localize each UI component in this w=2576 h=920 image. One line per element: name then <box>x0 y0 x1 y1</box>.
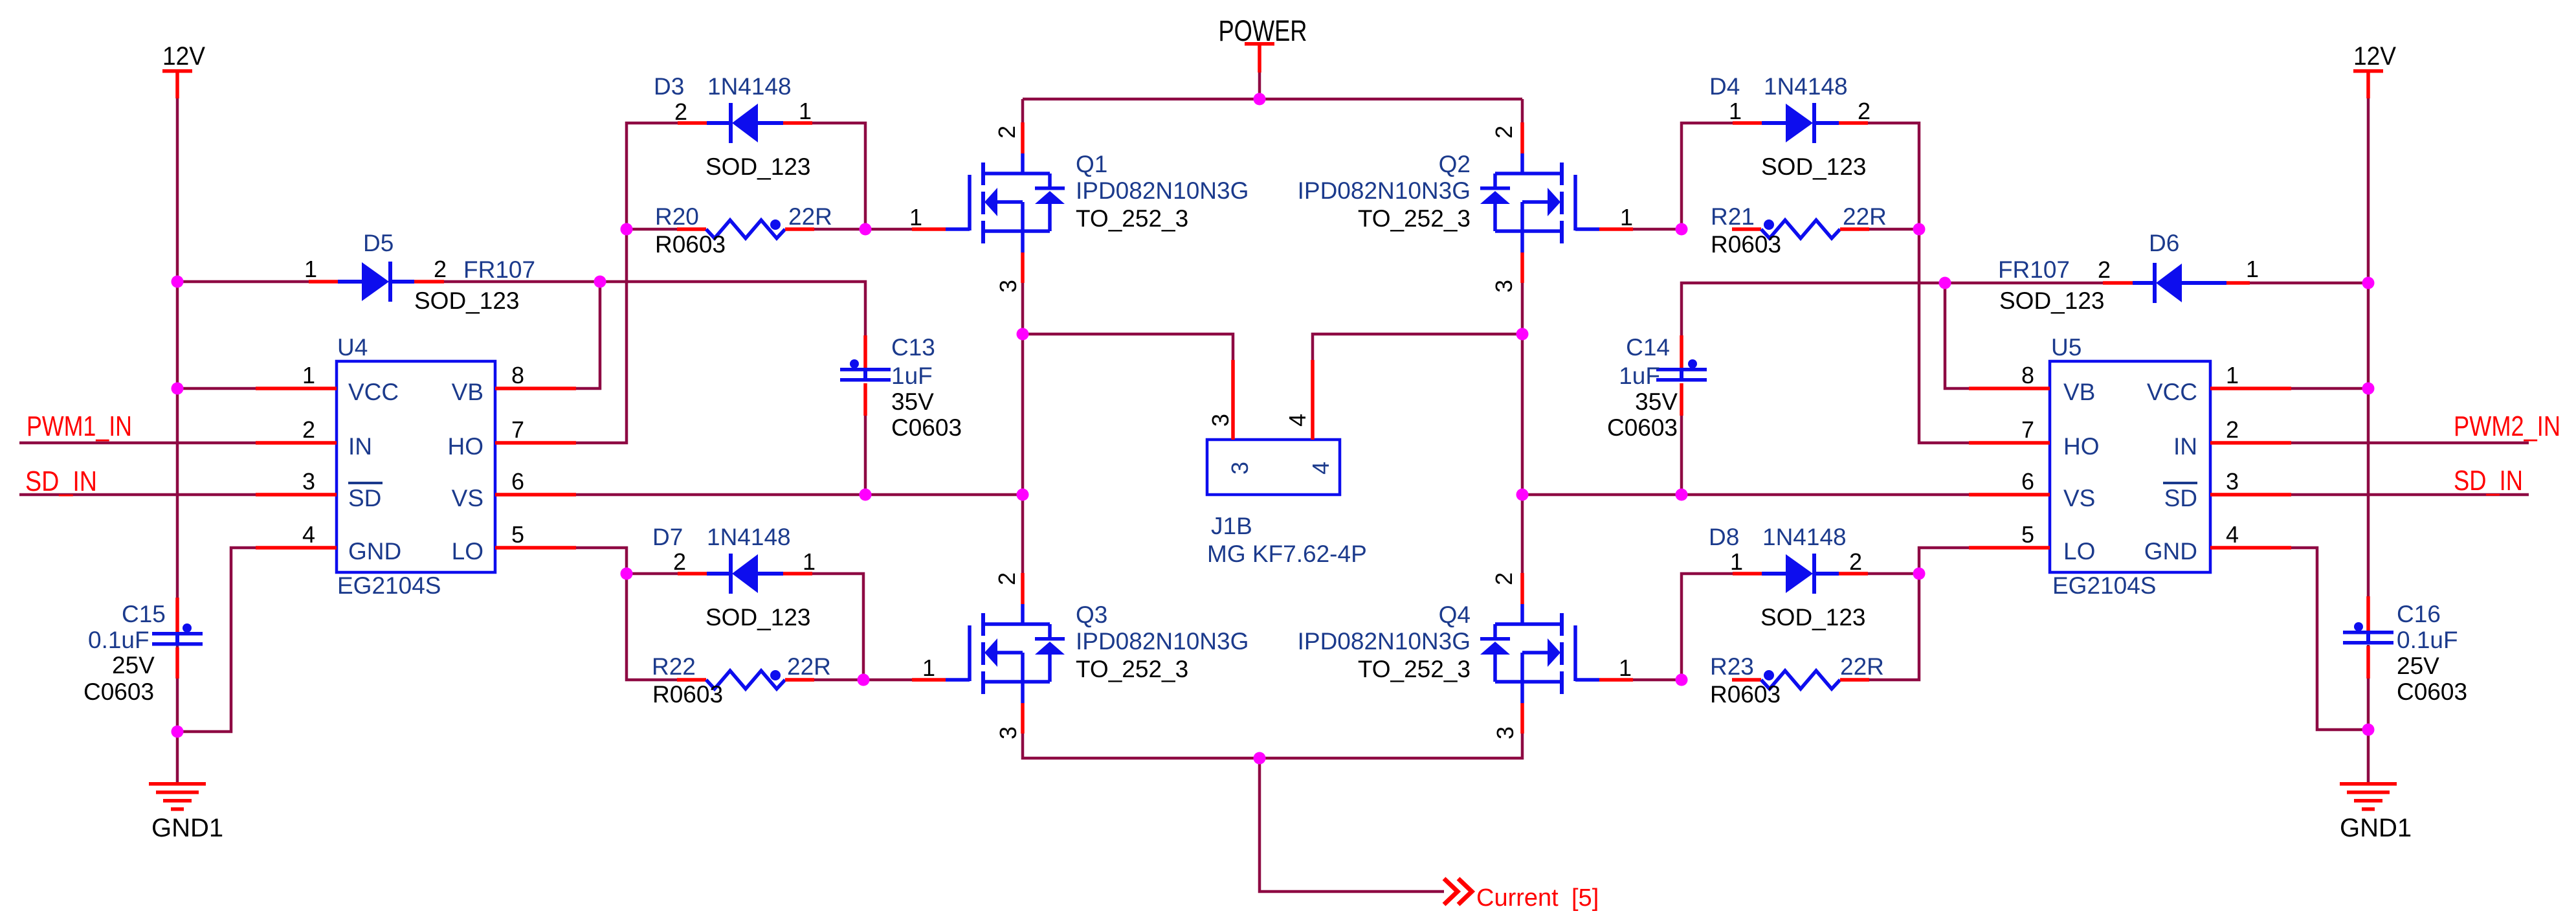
U4 pin stubs <box>256 388 576 548</box>
D6 labels <box>1998 230 2259 314</box>
R23 labels <box>1710 653 1884 708</box>
wire SD_IN net right <box>2291 493 2529 497</box>
svg-text:Q4: Q4 <box>1439 601 1471 628</box>
wire Q2 source / Q4 drain rail <box>1521 283 1524 573</box>
svg-text:2: 2 <box>434 256 447 282</box>
wire U4 VCC pin1 to 12V rail <box>177 387 256 390</box>
svg-text:1: 1 <box>1729 98 1742 124</box>
junction (2352,516) <box>1516 328 1529 341</box>
svg-text:VB: VB <box>2063 379 2095 405</box>
svg-text:Q2: Q2 <box>1439 151 1471 177</box>
svg-text:TO_252_3: TO_252_3 <box>1076 205 1188 232</box>
svg-text:5: 5 <box>511 521 524 548</box>
svg-text:1: 1 <box>1619 655 1632 681</box>
connector J1B body <box>1207 440 1340 495</box>
svg-text:TO_252_3: TO_252_3 <box>1358 205 1471 232</box>
C14 labels <box>1607 334 1678 441</box>
svg-text:R23: R23 <box>1710 653 1754 680</box>
junction (2965,886) <box>1913 568 1926 580</box>
svg-text:R0603: R0603 <box>655 231 726 258</box>
diode D3 1N4148 <box>678 103 812 143</box>
svg-text:SOD_123: SOD_123 <box>705 153 811 180</box>
svg-text:VCC: VCC <box>2147 379 2197 405</box>
power flag 12V left <box>162 42 205 98</box>
svg-text:IN: IN <box>2173 433 2197 460</box>
wire C16 to GND1 right <box>2367 645 2370 782</box>
svg-text:D3: D3 <box>654 73 684 100</box>
wire U4 GND pin4 to GND1 net <box>177 548 256 732</box>
wire D5 cathode to VB node <box>444 280 600 284</box>
wire D8 cathode branch <box>1868 572 1919 576</box>
svg-text:1: 1 <box>302 362 315 388</box>
svg-text:12V: 12V <box>2353 42 2396 71</box>
wire VS line left <box>576 493 1023 497</box>
IC U5 EG2104S body <box>2050 361 2210 572</box>
svg-text:C16: C16 <box>2397 601 2441 627</box>
wire D8 anode corner down to R23 left node <box>1682 574 1733 680</box>
wire VB drop to U4 pin8 <box>576 282 600 388</box>
svg-text:R0603: R0603 <box>652 681 723 708</box>
resistor R23 22R <box>1732 670 1869 689</box>
transistor Q3 IPD082N10N3G <box>912 573 1065 734</box>
svg-text:2: 2 <box>1858 98 1871 124</box>
power flag POWER <box>1219 14 1307 73</box>
D7 labels <box>652 524 816 631</box>
junction (274,1130) <box>172 726 184 738</box>
svg-text:4: 4 <box>2226 521 2239 548</box>
resistor R20 22R <box>677 219 814 238</box>
svg-text:6: 6 <box>2021 468 2034 495</box>
svg-text:D6: D6 <box>2149 230 2179 256</box>
junction (2598,764) <box>1676 489 1688 501</box>
wire Q1 drain to POWER bus <box>1021 99 1025 122</box>
wire SD_IN net left <box>19 493 256 497</box>
svg-text:3: 3 <box>995 726 1021 739</box>
svg-text:2: 2 <box>673 548 686 575</box>
svg-text:Current: Current <box>1476 884 1559 912</box>
svg-text:12V: 12V <box>162 42 205 71</box>
diode D5 FR107 <box>309 262 444 302</box>
svg-text:35V: 35V <box>891 388 934 415</box>
svg-text:J1B: J1B <box>1211 513 1252 539</box>
ground GND1 right <box>2340 782 2412 842</box>
C15 labels <box>83 601 166 705</box>
D3 labels <box>654 73 812 180</box>
svg-text:5: 5 <box>2021 521 2034 548</box>
wire 12V rail right (upper) <box>2367 98 2370 596</box>
junction (274,435) <box>172 276 184 288</box>
wire R20 right to Q1 gate <box>814 228 912 231</box>
C13 labels <box>891 334 962 441</box>
Q4 labels <box>1298 572 1632 739</box>
svg-text:D7: D7 <box>652 524 683 550</box>
wire VS line right <box>1522 493 1969 497</box>
svg-text:25V: 25V <box>2397 653 2439 679</box>
svg-text:FR107: FR107 <box>463 256 535 283</box>
wire VB drop to U5 pin8 <box>1945 283 1969 388</box>
transistor Q1 IPD082N10N3G <box>912 122 1065 283</box>
diode D7 1N4148 <box>678 554 812 594</box>
wire bridge B to J1B pin4 <box>1313 334 1522 360</box>
svg-text:R21: R21 <box>1711 203 1755 230</box>
Q3 labels <box>922 572 1249 739</box>
wire C14 bottom to VS line <box>1680 416 1683 495</box>
svg-text:6: 6 <box>511 468 524 495</box>
wire Q1 source / Q3 drain rail <box>1021 283 1025 573</box>
svg-text:1: 1 <box>1730 548 1743 575</box>
junction (274,600) <box>172 383 184 395</box>
wire U4 LO pin5 to D7 <box>576 548 627 574</box>
R20 labels <box>655 203 832 258</box>
transistor Q2 IPD082N10N3G <box>1480 122 1633 283</box>
svg-text:1: 1 <box>803 548 816 575</box>
svg-text:3: 3 <box>1207 414 1234 427</box>
svg-text:GND1: GND1 <box>151 814 223 842</box>
wire C15 to GND1 left <box>176 645 179 782</box>
svg-text:[5]: [5] <box>1571 884 1599 912</box>
svg-text:1uF: 1uF <box>891 363 933 389</box>
svg-text:Q1: Q1 <box>1076 151 1107 177</box>
svg-text:3: 3 <box>995 280 1021 293</box>
svg-text:SD: SD <box>2164 485 2197 511</box>
wire VB line right to C14 <box>1682 283 1945 335</box>
svg-text:1N4148: 1N4148 <box>707 73 792 100</box>
svg-text:1uF: 1uF <box>1619 363 1660 389</box>
svg-text:VCC: VCC <box>348 379 399 405</box>
R21 labels <box>1711 203 1887 258</box>
wire to Current port <box>1260 758 1444 892</box>
C16 labels <box>2397 601 2467 705</box>
svg-text:SOD_123: SOD_123 <box>414 287 520 314</box>
svg-text:2: 2 <box>674 98 687 125</box>
J1B pin numbers outside <box>1207 414 1311 427</box>
svg-text:2: 2 <box>1849 548 1862 575</box>
wire POWER bus <box>1023 98 1522 101</box>
svg-text:7: 7 <box>511 416 524 443</box>
svg-text:HO: HO <box>448 433 484 460</box>
svg-text:2: 2 <box>2098 256 2111 283</box>
svg-text:Q3: Q3 <box>1076 601 1107 628</box>
transistor Q4 IPD082N10N3G <box>1480 573 1633 734</box>
svg-text:SOD_123: SOD_123 <box>705 604 811 631</box>
wire POWER stub <box>1258 73 1261 99</box>
svg-text:1: 1 <box>909 204 922 230</box>
wire PWM1_IN net <box>19 442 256 445</box>
svg-text:SD: SD <box>348 485 381 511</box>
svg-text:3: 3 <box>1492 726 1518 739</box>
wire R22 to Q3 gate <box>814 679 912 682</box>
svg-text:R0603: R0603 <box>1710 681 1781 708</box>
svg-text:8: 8 <box>511 362 524 388</box>
svg-text:R0603: R0603 <box>1711 231 1781 258</box>
junction (3659,437) <box>2362 277 2375 289</box>
junction (2598,354) <box>1676 223 1688 236</box>
wire 12V to D5 anode <box>177 280 309 284</box>
svg-text:MG KF7.62-4P: MG KF7.62-4P <box>1207 541 1367 567</box>
R22 labels <box>652 653 831 708</box>
svg-text:2: 2 <box>1491 126 1517 139</box>
svg-text:U4: U4 <box>337 334 368 361</box>
svg-text:3: 3 <box>1491 280 1517 293</box>
svg-text:POWER: POWER <box>1219 14 1307 47</box>
junction (927,435) <box>594 276 606 288</box>
junction (1946,153) <box>1254 93 1266 106</box>
resistor R21 22R <box>1732 219 1869 238</box>
D4 labels <box>1709 73 1871 180</box>
svg-text:GND1: GND1 <box>2340 814 2412 842</box>
svg-text:2: 2 <box>994 126 1020 139</box>
svg-text:C14: C14 <box>1626 334 1670 361</box>
capacitor C16 0.1uF <box>2366 596 2370 631</box>
wire D4 anode corner down to R21 <box>1682 123 1733 229</box>
svg-text:SD_IN: SD_IN <box>2454 465 2523 497</box>
svg-text:C13: C13 <box>891 334 935 361</box>
svg-text:GND: GND <box>2144 538 2197 565</box>
svg-text:IN: IN <box>348 433 372 460</box>
svg-text:3: 3 <box>1227 462 1253 475</box>
U5 pin names <box>2063 379 2197 565</box>
svg-text:IPD082N10N3G: IPD082N10N3G <box>1298 628 1471 655</box>
svg-text:LO: LO <box>2063 538 2095 565</box>
svg-text:2: 2 <box>302 416 315 443</box>
svg-text:D4: D4 <box>1709 73 1740 100</box>
svg-text:SOD_123: SOD_123 <box>1760 604 1866 631</box>
svg-text:1: 1 <box>1620 204 1633 230</box>
svg-text:TO_252_3: TO_252_3 <box>1358 656 1471 682</box>
wire bridge A to J1B pin3 <box>1023 334 1233 360</box>
wire U4 HO pin7 up to D3/R20 <box>576 123 678 443</box>
wire D6 cathode to 12V rail right <box>2250 282 2368 285</box>
svg-text:1: 1 <box>2246 256 2259 282</box>
svg-text:4: 4 <box>1284 414 1311 427</box>
svg-text:1: 1 <box>304 256 317 282</box>
svg-text:C0603: C0603 <box>1607 414 1678 441</box>
junction (1580,764) <box>1017 489 1029 501</box>
wire D8 node down to R23 <box>1869 574 1919 680</box>
svg-text:IPD082N10N3G: IPD082N10N3G <box>1076 628 1249 655</box>
junction (1334,1050) <box>858 674 870 686</box>
svg-text:2: 2 <box>1491 572 1517 585</box>
wire R21 left to Q2 gate <box>1633 228 1682 231</box>
junction (1580,516) <box>1017 328 1029 341</box>
svg-text:TO_252_3: TO_252_3 <box>1076 656 1188 682</box>
resistor R22 22R <box>677 670 814 689</box>
svg-text:22R: 22R <box>1840 653 1884 680</box>
Q1 labels <box>909 126 1249 293</box>
power flag 12V right <box>2353 42 2396 98</box>
wire Q3/Q4 source bridge <box>1023 734 1522 758</box>
junction (2352,764) <box>1516 489 1529 501</box>
wire R23 to Q4 gate <box>1633 679 1682 682</box>
U5 pin stubs <box>1969 388 2291 548</box>
U5 pin numbers <box>2021 362 2239 548</box>
junction (1337,764) <box>860 489 872 501</box>
svg-text:22R: 22R <box>788 203 832 230</box>
off-sheet connector Current [5] <box>1444 879 1599 912</box>
svg-text:22R: 22R <box>1843 203 1887 230</box>
svg-text:2: 2 <box>2226 416 2239 443</box>
wire U5 LO pin5 to D8 <box>1919 548 1969 574</box>
svg-text:35V: 35V <box>1635 388 1678 415</box>
capacitor C15 0.1uF <box>175 598 179 632</box>
Q2 labels <box>1298 126 1633 293</box>
svg-text:4: 4 <box>302 521 315 548</box>
wire D3 cathode corner down to R20 <box>812 123 865 229</box>
junction (3005,437) <box>1939 277 1951 289</box>
junction (1946,1171) <box>1254 752 1266 765</box>
D5 labels <box>304 230 535 314</box>
svg-text:R22: R22 <box>652 653 696 680</box>
svg-text:VS: VS <box>452 485 483 511</box>
diode D6 FR107 <box>2103 263 2250 303</box>
wire VB line to C13 <box>600 282 865 335</box>
svg-text:1N4148: 1N4148 <box>1762 524 1847 550</box>
svg-text:PWM2_IN: PWM2_IN <box>2454 410 2560 442</box>
svg-text:VB: VB <box>452 379 483 405</box>
svg-text:1: 1 <box>799 98 812 124</box>
wire C13 bottom to VS line <box>864 416 867 495</box>
U4 pin names <box>348 379 483 565</box>
svg-text:LO: LO <box>452 538 483 565</box>
svg-text:PWM1_IN: PWM1_IN <box>27 410 132 442</box>
wire U5 GND pin4 to GND1 net <box>2291 548 2368 730</box>
svg-text:HO: HO <box>2063 433 2100 460</box>
junction (1337,354) <box>860 223 872 236</box>
svg-text:GND: GND <box>348 538 401 565</box>
wire D7 node down to R22 <box>627 574 677 680</box>
wire R21 right branch <box>1869 228 1919 231</box>
svg-text:SOD_123: SOD_123 <box>1761 153 1867 180</box>
diode D4 1N4148 <box>1733 103 1868 143</box>
U4 pin numbers <box>302 362 524 548</box>
diode D8 1N4148 <box>1733 554 1868 594</box>
svg-text:IPD082N10N3G: IPD082N10N3G <box>1298 177 1471 204</box>
junction (2965,354) <box>1913 223 1926 236</box>
junction (2598,1050) <box>1676 674 1688 686</box>
svg-text:1: 1 <box>2226 362 2239 388</box>
wire D6 anode to VB node right <box>1945 282 2103 285</box>
wire R20 left branch <box>627 228 677 231</box>
IC U4 EG2104S body <box>337 361 495 572</box>
junction (968,886) <box>621 568 633 580</box>
svg-text:2: 2 <box>994 572 1020 585</box>
svg-text:0.1uF: 0.1uF <box>2397 627 2458 653</box>
junction (3659,600) <box>2362 383 2375 395</box>
wire D7 anode branch <box>627 572 678 576</box>
svg-text:22R: 22R <box>787 653 831 680</box>
ground GND1 left <box>149 782 223 842</box>
svg-text:C0603: C0603 <box>891 414 962 441</box>
svg-text:C0603: C0603 <box>83 679 154 705</box>
svg-text:R20: R20 <box>655 203 699 230</box>
svg-text:7: 7 <box>2021 416 2034 443</box>
wire U5 VCC pin1 to 12V rail <box>2291 387 2368 390</box>
svg-text:1N4148: 1N4148 <box>707 524 791 550</box>
junction (3659,1127) <box>2362 724 2375 736</box>
wire 12V rail left (upper) <box>176 98 179 598</box>
svg-text:C0603: C0603 <box>2397 679 2467 705</box>
svg-text:25V: 25V <box>112 652 155 679</box>
D8 labels <box>1709 524 1866 631</box>
svg-text:VS: VS <box>2063 485 2095 511</box>
svg-text:0.1uF: 0.1uF <box>88 627 150 653</box>
J1B pin stubs <box>1233 360 1313 440</box>
svg-text:C15: C15 <box>122 601 166 627</box>
svg-text:1N4148: 1N4148 <box>1764 73 1848 100</box>
svg-text:D5: D5 <box>363 230 394 256</box>
svg-text:8: 8 <box>2021 362 2034 388</box>
svg-text:SOD_123: SOD_123 <box>1999 287 2105 314</box>
svg-text:1: 1 <box>922 655 935 681</box>
svg-text:SD_IN: SD_IN <box>25 466 97 497</box>
capacitor C14 1uF bootstrap <box>1680 335 1683 368</box>
junction (968,354) <box>621 223 633 236</box>
svg-text:EG2104S: EG2104S <box>337 572 441 599</box>
svg-text:EG2104S: EG2104S <box>2052 572 2156 599</box>
svg-text:FR107: FR107 <box>1998 256 2070 283</box>
svg-text:IPD082N10N3G: IPD082N10N3G <box>1076 177 1249 204</box>
J1B pin numbers inside <box>1227 462 1334 475</box>
svg-text:D8: D8 <box>1709 524 1739 550</box>
svg-text:4: 4 <box>1307 462 1334 475</box>
capacitor C13 1uF bootstrap <box>863 335 867 368</box>
wire PWM2_IN net <box>2291 442 2529 445</box>
svg-text:3: 3 <box>302 468 315 495</box>
svg-text:U5: U5 <box>2051 334 2082 361</box>
wire Q2 drain to POWER bus <box>1521 99 1524 122</box>
wire D7 cathode corner down to R22 right node <box>812 574 863 680</box>
wire U5 HO pin7 up to D4/R21 <box>1868 123 1969 443</box>
svg-text:3: 3 <box>2226 468 2239 495</box>
